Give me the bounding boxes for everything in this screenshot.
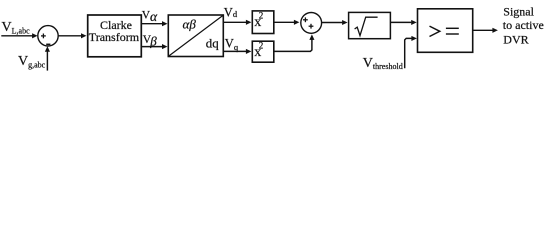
arrowhead into Clarke xyxy=(81,33,87,38)
arrowhead Vbeta into dq box xyxy=(162,44,168,49)
arrowhead Vg,abc up into summer1 xyxy=(45,46,50,52)
arrowhead Vq into x2 bottom xyxy=(246,49,252,54)
wire Vthreshold elbow xyxy=(405,38,412,68)
svg-text:to active: to active xyxy=(503,18,544,32)
square root box xyxy=(349,12,391,38)
comparator box xyxy=(418,9,473,53)
wire x2 bottom elbow up to summer2 xyxy=(274,39,312,51)
arrowhead up into summer2 bottom xyxy=(309,34,314,40)
square root symbol xyxy=(355,17,378,35)
summer1 minus sign xyxy=(46,43,50,45)
summer2 plus sign lower-right xyxy=(309,24,314,29)
svg-text:β: β xyxy=(149,34,157,49)
wire Vbeta xyxy=(141,46,162,48)
svg-text:α: α xyxy=(150,9,158,24)
summer2 circle xyxy=(301,13,322,34)
Clarke Transform box xyxy=(88,15,142,57)
arrowhead into summer1 xyxy=(32,33,38,38)
arrowhead into summer2 left xyxy=(294,20,300,25)
svg-text:2: 2 xyxy=(259,10,264,20)
alpha-beta to dq box xyxy=(168,15,223,57)
wire x2 top to summer2 xyxy=(274,21,294,23)
equals sign xyxy=(446,27,459,29)
svg-text:DVR: DVR xyxy=(503,33,528,47)
wire Valpha xyxy=(141,23,162,25)
summer1 circle xyxy=(38,26,58,46)
svg-text:dq: dq xyxy=(206,36,220,51)
dq box diagonal xyxy=(169,15,223,56)
node VL,abc input wire xyxy=(1,35,32,37)
arrowhead into sqrt box xyxy=(342,20,348,25)
wire Vg,abc vertical xyxy=(46,51,48,71)
wire sqrt to comparator xyxy=(390,21,411,23)
summer1 plus sign xyxy=(41,34,46,39)
wire comparator output xyxy=(473,29,493,31)
arrowhead into comparator top input xyxy=(411,20,417,25)
wire Vd xyxy=(224,21,247,23)
wire summer2 to sqrt box xyxy=(322,22,343,24)
wire Vq xyxy=(224,50,247,52)
arrowhead Valpha into dq box xyxy=(162,21,168,26)
greater-than sign xyxy=(430,26,440,36)
arrowhead output to signal text xyxy=(492,28,498,33)
arrowhead into comparator threshold input xyxy=(411,36,417,41)
svg-text:Signal: Signal xyxy=(503,5,534,19)
wire circle1 to Clarke xyxy=(59,35,82,37)
x squared box top xyxy=(252,11,273,34)
x squared box bottom xyxy=(252,41,273,62)
summer2 plus sign upper-left xyxy=(303,17,308,22)
arrowhead Vd into x2 top xyxy=(246,20,252,25)
svg-text:2: 2 xyxy=(259,40,264,50)
svg-text:Transform: Transform xyxy=(89,30,140,44)
svg-text:αβ: αβ xyxy=(183,17,197,32)
